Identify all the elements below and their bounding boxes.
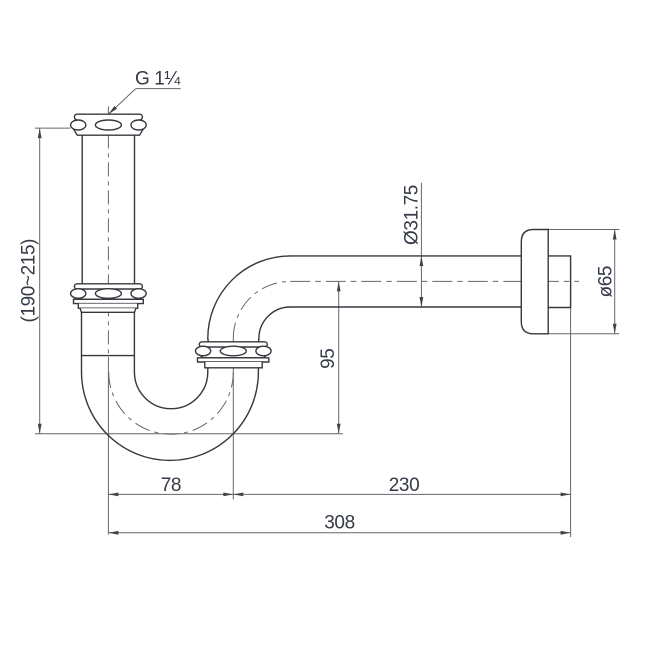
svg-text:Ø31.75: Ø31.75 (402, 185, 423, 245)
svg-text:230: 230 (389, 475, 420, 496)
svg-text:ø65: ø65 (595, 266, 616, 298)
svg-text:95: 95 (318, 349, 339, 369)
svg-text:(190~215): (190~215) (19, 239, 40, 323)
svg-text:308: 308 (324, 513, 355, 534)
svg-text:78: 78 (161, 475, 181, 496)
svg-text:G 1¼: G 1¼ (135, 68, 181, 89)
